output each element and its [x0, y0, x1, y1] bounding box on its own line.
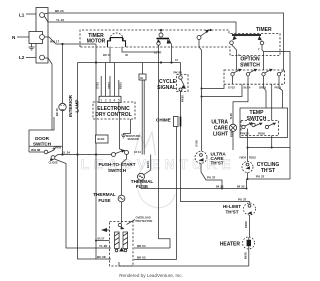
svg-text:BU14: BU14 — [244, 86, 251, 90]
wire option to ultra care light — [233, 84, 248, 124]
svg-text:PK80: PK80 — [181, 95, 185, 102]
svg-text:TH'ST: TH'ST — [225, 210, 238, 215]
wire YL-34 door to push-start — [55, 155, 112, 157]
svg-text:BK 23: BK 23 — [55, 9, 64, 13]
svg-text:1: 1 — [100, 98, 102, 102]
wire timer right contact to heater column — [262, 45, 290, 179]
wire BK-10 fuse F2 to cycling th'st — [141, 180, 247, 188]
svg-text:RD36: RD36 — [258, 132, 265, 136]
timer right contacts bar — [232, 34, 261, 36]
watermark LeadVenture — [81, 132, 236, 208]
svg-text:OR33: OR33 — [259, 86, 267, 90]
wire L2 lead — [26, 57, 36, 59]
svg-text:TH'ST: TH'ST — [211, 161, 224, 166]
wire N lead — [17, 36, 29, 38]
svg-text:PU 37: PU 37 — [256, 175, 265, 179]
svg-text:GY36: GY36 — [195, 140, 199, 147]
svg-text:THERMAL: THERMAL — [93, 192, 116, 197]
svg-text:DOOR: DOOR — [35, 136, 49, 141]
thermal fuse F2 — [138, 173, 145, 180]
svg-text:YM34: YM34 — [239, 156, 247, 160]
svg-text:INTERIOR: INTERIOR — [68, 94, 73, 117]
wire N bus down left console — [95, 44, 97, 259]
terminal L2 — [40, 55, 45, 60]
svg-text:RD10: RD10 — [119, 82, 123, 89]
push-to-start switch S2 — [112, 153, 116, 157]
svg-text:LAMP: LAMP — [75, 99, 80, 112]
svg-text:HI: HI — [250, 121, 253, 125]
svg-text:SIGNAL: SIGNAL — [157, 85, 176, 91]
thermal fuse F1 — [118, 195, 125, 202]
wire timer T1a to mid bus — [171, 45, 173, 63]
wire option contact stubs — [233, 76, 280, 84]
wire L1 lead — [26, 13, 36, 15]
wire cycle signal feed — [180, 63, 182, 75]
ground at terminal block — [29, 44, 35, 51]
svg-text:BK10: BK10 — [146, 161, 150, 168]
wire contact T1b down to ultra care feed — [199, 40, 202, 152]
moisture sensor — [130, 119, 132, 134]
timer motor M1 — [110, 33, 124, 47]
svg-text:SWITCH: SWITCH — [108, 168, 127, 173]
svg-text:FUSE: FUSE — [98, 198, 110, 203]
svg-text:PU 37: PU 37 — [207, 176, 216, 180]
wire ultra th'st to BK-32 row — [201, 163, 222, 188]
temp switch S5 enclosure — [240, 108, 288, 138]
wire motor left lead — [109, 47, 111, 63]
svg-text:RD 04: RD 04 — [137, 244, 146, 248]
svg-text:2: 2 — [105, 98, 107, 102]
wire motor to bottom bus — [119, 262, 249, 266]
wire long drop from T1a to motor row — [159, 45, 171, 248]
wire left bus BU-28 — [78, 63, 112, 260]
wire temp to cycling thermostat — [247, 129, 249, 162]
wire cycling enclosure top — [248, 147, 291, 149]
hi-limit thermostat TH3 — [244, 203, 256, 215]
svg-text:GY10: GY10 — [96, 82, 100, 89]
svg-text:40: 40 — [140, 76, 143, 80]
svg-text:BK 03: BK 03 — [137, 256, 146, 260]
svg-text:Rendered by LeadVenture, Inc.: Rendered by LeadVenture, Inc. — [119, 273, 183, 278]
svg-text:SWITCH: SWITCH — [240, 63, 260, 69]
svg-text:L2: L2 — [19, 55, 25, 60]
timer T1 dashed outline — [80, 30, 280, 56]
svg-text:OVERLOAD: OVERLOAD — [136, 216, 151, 220]
svg-text:RD32: RD32 — [249, 156, 256, 160]
svg-text:SWITCH: SWITCH — [33, 141, 52, 146]
svg-text:PK30: PK30 — [242, 132, 249, 136]
wire motor right lead to contact — [122, 47, 159, 53]
wire mid bus row — [78, 62, 181, 64]
timer contact T1a — [159, 33, 163, 37]
wire YL-43 from L1 to timer — [44, 16, 236, 37]
svg-text:BK 40: BK 40 — [103, 53, 111, 57]
connector 1-5 — [99, 96, 121, 102]
timer contact T1b — [197, 36, 201, 40]
wire fuse F2 top — [144, 155, 151, 175]
wire BK-23 from L1 across top to right side — [44, 13, 283, 70]
svg-text:PROTECTOR: PROTECTOR — [136, 219, 153, 223]
wire timer to option switch left — [232, 45, 237, 71]
electronic dry control U1 — [93, 102, 135, 119]
wire BU-17 tap into motor box — [96, 240, 110, 242]
svg-text:OR10: OR10 — [107, 81, 111, 89]
console outline at door switch — [29, 117, 54, 152]
svg-text:HI-LIMIT: HI-LIMIT — [223, 204, 241, 209]
svg-text:BU22: BU22 — [98, 137, 105, 141]
svg-text:10: 10 — [175, 58, 178, 62]
terminal N — [29, 32, 43, 44]
svg-text:5: 5 — [118, 98, 120, 102]
svg-text:SENSOR: SENSOR — [128, 137, 139, 141]
ground at motor — [107, 229, 110, 231]
svg-text:18 34: 18 34 — [134, 150, 141, 154]
wire motor to chime bus BK-03 — [134, 259, 177, 261]
terminal block TB1 — [36, 8, 48, 64]
svg-text:3: 3 — [109, 98, 111, 102]
svg-text:TIMER: TIMER — [256, 27, 272, 33]
wire push-start to thermal fuse — [122, 155, 127, 196]
svg-text:PU 37: PU 37 — [238, 198, 247, 202]
terminal L1 — [40, 13, 45, 18]
wire WH-17 from N — [44, 37, 96, 44]
svg-text:OPEN: OPEN — [54, 146, 62, 150]
wire WH-38 into door switch — [29, 151, 44, 153]
ultra care thermostat TH1 — [195, 151, 207, 163]
svg-text:CLOSE: CLOSE — [49, 161, 58, 165]
svg-text:WH 17: WH 17 — [50, 40, 60, 44]
wire lamp to door row — [62, 111, 64, 155]
wire heater to bottom bus — [248, 249, 250, 266]
wire lamp feed — [62, 44, 64, 103]
connector P2 — [142, 63, 144, 75]
wire L2 drop — [44, 58, 52, 130]
svg-text:4: 4 — [114, 98, 116, 102]
wire cycling th'st bottom — [247, 173, 249, 180]
wire cycle signal to chime — [180, 92, 182, 117]
overload contact — [118, 223, 121, 226]
svg-text:GY32: GY32 — [228, 86, 235, 90]
svg-text:YL 43: YL 43 — [56, 18, 64, 22]
svg-text:MOTOR: MOTOR — [87, 39, 106, 45]
svg-text:TH'ST: TH'ST — [261, 168, 275, 174]
wire PU-37 chime branch to hi-limit — [181, 127, 250, 204]
node junctions on door row — [61, 153, 63, 155]
wire motor to center bus RD-04 — [134, 247, 170, 249]
wire option to temp switch — [271, 84, 273, 120]
svg-text:40: 40 — [125, 53, 128, 57]
svg-text:RD80: RD80 — [230, 130, 234, 137]
svg-text:84 32: 84 32 — [237, 185, 245, 189]
wire terminal 5 to push-start — [119, 103, 125, 151]
svg-text:RD36: RD36 — [244, 221, 248, 228]
wire hi-limit to heater — [249, 215, 251, 237]
wire door switch drop BK-38 — [55, 159, 112, 248]
svg-text:BU17: BU17 — [98, 237, 105, 241]
svg-text:LIGHT: LIGHT — [213, 132, 228, 138]
svg-text:DRY CONTROL: DRY CONTROL — [95, 112, 131, 118]
svg-text:WH 38: WH 38 — [31, 148, 41, 152]
svg-text:YL 38: YL 38 — [99, 244, 107, 248]
heater E1 — [243, 237, 255, 249]
svg-text:L1: L1 — [19, 13, 25, 18]
wires dry control leads — [101, 63, 119, 97]
motor M2 assembly dashed box — [110, 222, 134, 267]
door switch contacts — [44, 150, 48, 154]
connector P1 — [96, 135, 109, 143]
wire fuse to motor — [121, 202, 123, 223]
svg-text:BU 28: BU 28 — [97, 255, 106, 259]
svg-text:PUSH-TO-START: PUSH-TO-START — [98, 162, 135, 167]
svg-text:HEATER: HEATER — [220, 242, 241, 248]
interior lamp IL1 — [59, 103, 66, 110]
wire ultra care light bottom — [232, 131, 234, 150]
cycling thermostat TH2 — [242, 162, 253, 173]
motor windings — [115, 232, 128, 249]
wire chime to bottom — [176, 127, 178, 260]
svg-text:CHIME: CHIME — [156, 118, 171, 123]
svg-text:BK36: BK36 — [244, 252, 248, 259]
svg-text:YL80: YL80 — [229, 113, 233, 120]
node lamp tap — [61, 43, 63, 45]
svg-text:BK 38: BK 38 — [55, 108, 59, 116]
